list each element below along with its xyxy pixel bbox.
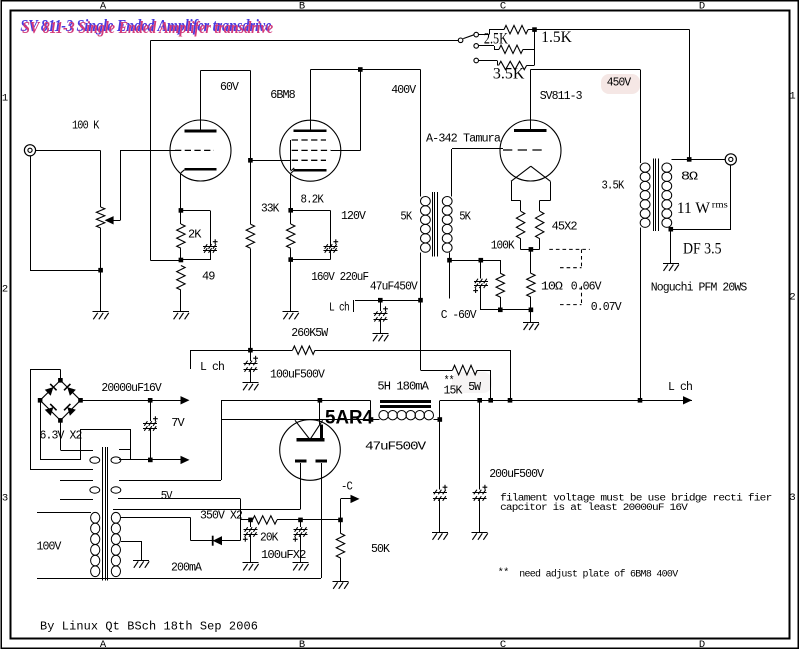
svg-text:5W: 5W: [468, 381, 481, 394]
svg-text:100K: 100K: [491, 240, 515, 253]
svg-text:5K: 5K: [459, 211, 471, 224]
svg-text:33K: 33K: [261, 203, 279, 216]
svg-text:DF 3.5: DF 3.5: [683, 241, 722, 258]
svg-text:11 W: 11 W: [677, 200, 711, 217]
svg-text:C: C: [500, 1, 506, 13]
svg-text:A: A: [100, 639, 107, 650]
svg-text:160V 220uF: 160V 220uF: [311, 271, 369, 284]
svg-text:capcitor is at least 20000uF 1: capcitor is at least 20000uF 16V: [500, 502, 688, 514]
svg-text:450V: 450V: [607, 77, 631, 90]
svg-text:20K: 20K: [260, 532, 278, 545]
svg-text:**: **: [498, 567, 509, 579]
svg-text:7V: 7V: [171, 417, 185, 430]
svg-text:20000uF16V: 20000uF16V: [101, 382, 161, 395]
svg-text:120V: 120V: [341, 210, 366, 223]
svg-text:50K: 50K: [371, 543, 390, 556]
svg-text:2: 2: [2, 284, 8, 296]
svg-text:5H 180mA: 5H 180mA: [377, 381, 429, 394]
svg-text:60V: 60V: [220, 81, 239, 94]
svg-text:Noguchi PFM 20WS: Noguchi PFM 20WS: [651, 282, 747, 295]
svg-text:L ch: L ch: [329, 302, 349, 315]
svg-text:0.06V: 0.06V: [571, 281, 602, 294]
svg-text:8.2K: 8.2K: [301, 193, 324, 206]
svg-text:1.5K: 1.5K: [541, 29, 572, 46]
svg-text:5V: 5V: [161, 490, 173, 503]
svg-text:By Linux Qt BSch 18th Sep 2006: By Linux Qt BSch 18th Sep 2006: [40, 620, 258, 634]
svg-text:A: A: [100, 1, 107, 13]
svg-text:C: C: [500, 639, 506, 650]
svg-text:B: B: [299, 1, 305, 13]
svg-text:D: D: [699, 1, 705, 13]
svg-text:49: 49: [202, 271, 216, 284]
svg-text:5AR4: 5AR4: [325, 408, 373, 429]
svg-text:3.5K: 3.5K: [493, 65, 525, 82]
svg-text:-C: -C: [341, 481, 353, 494]
svg-text:D: D: [699, 639, 705, 650]
svg-text:3.5K: 3.5K: [602, 180, 625, 193]
svg-text:10Ω: 10Ω: [541, 281, 563, 294]
svg-text:100V: 100V: [37, 541, 62, 554]
svg-text:need adjust plate of 6BM8 400: need adjust plate of 6BM8 400V: [519, 569, 678, 581]
svg-text:L ch: L ch: [200, 361, 224, 374]
svg-text:6.3V X2: 6.3V X2: [40, 430, 83, 443]
svg-text:B: B: [299, 639, 305, 650]
svg-text:SV811-3: SV811-3: [540, 90, 583, 103]
svg-text:1: 1: [2, 93, 8, 105]
svg-text:350V X2: 350V X2: [200, 510, 243, 523]
svg-text:2: 2: [789, 292, 795, 304]
svg-text:100 K: 100 K: [72, 120, 99, 133]
svg-text:5K: 5K: [400, 211, 412, 224]
svg-text:6BM8: 6BM8: [270, 89, 296, 102]
svg-text:260K5W: 260K5W: [291, 327, 328, 340]
svg-text:2K: 2K: [188, 229, 202, 242]
svg-text:0.07V: 0.07V: [591, 301, 622, 314]
svg-text:C -60V: C -60V: [441, 309, 477, 322]
svg-text:1: 1: [789, 91, 795, 103]
svg-text:SV 811-3 Single Ended Amplifer: SV 811-3 Single Ended Amplifer transdriv…: [22, 18, 273, 37]
svg-text:47uF500V: 47uF500V: [365, 441, 426, 454]
svg-text:3: 3: [789, 492, 795, 504]
svg-text:rms: rms: [712, 201, 728, 211]
svg-text:200mA: 200mA: [171, 562, 202, 575]
svg-text:47uF450V: 47uF450V: [370, 281, 418, 294]
svg-text:45X2: 45X2: [552, 221, 578, 234]
svg-text:A-342 Tamura: A-342 Tamura: [426, 133, 501, 146]
svg-text:400V: 400V: [391, 84, 416, 97]
svg-text:100uFX2: 100uFX2: [261, 549, 307, 562]
svg-text:8Ω: 8Ω: [681, 171, 698, 184]
svg-text:100uF500V: 100uF500V: [270, 369, 325, 382]
svg-text:2.5K: 2.5K: [484, 31, 509, 48]
svg-text:200uF500V: 200uF500V: [489, 468, 544, 481]
svg-text:L ch: L ch: [668, 381, 692, 394]
svg-text:3: 3: [2, 493, 8, 505]
svg-text:15K: 15K: [444, 385, 463, 398]
